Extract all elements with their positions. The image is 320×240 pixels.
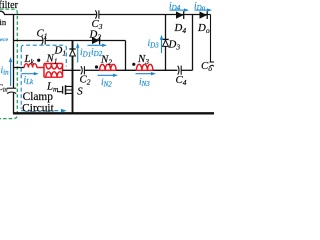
current arrow i_Lk bbox=[22, 72, 39, 75]
svg-text:iin: iin bbox=[1, 66, 10, 77]
capacitor C4 bbox=[178, 66, 182, 75]
svg-text:iDo: iDo bbox=[194, 2, 206, 13]
svg-text:C4: C4 bbox=[176, 74, 187, 87]
svg-text:S: S bbox=[77, 86, 83, 98]
svg-text:N3: N3 bbox=[137, 53, 149, 66]
svg-text:C1: C1 bbox=[37, 28, 48, 41]
label Cin (partial) bbox=[0, 83, 8, 94]
label D4 bbox=[174, 22, 187, 35]
input label vin (partial) bbox=[0, 17, 7, 27]
current arrow i_N3 bbox=[136, 72, 157, 75]
svg-text:iN2: iN2 bbox=[101, 78, 112, 89]
transformer primary N1 / Lm block (red) bbox=[44, 64, 63, 78]
wire: secondary chain bbox=[73, 69, 193, 71]
node dot N2 polarity bbox=[95, 65, 98, 68]
wire: D2 branch to secondary bbox=[73, 41, 126, 71]
label i_N2 bbox=[101, 78, 112, 89]
svg-text:iD4: iD4 bbox=[169, 2, 181, 13]
svg-text:C2: C2 bbox=[80, 74, 91, 87]
wire: top rail bbox=[4, 14, 211, 16]
svg-text:iD3: iD3 bbox=[148, 39, 160, 50]
svg-text:iN3: iN3 bbox=[139, 78, 150, 89]
label i_Do bbox=[194, 2, 206, 13]
svg-text:iD1: iD1 bbox=[80, 48, 91, 59]
wire: bottom rail bbox=[13, 112, 214, 114]
capacitor Cin bbox=[7, 88, 16, 93]
label D3 bbox=[168, 39, 181, 52]
label N1 bbox=[46, 53, 58, 66]
current arrow i_D1 bbox=[76, 43, 79, 63]
label Lk bbox=[24, 53, 35, 66]
diode Do bbox=[200, 11, 208, 19]
node dot N3 polarity bbox=[132, 63, 135, 66]
capacitor C2 bbox=[81, 66, 85, 74]
wire: left input rail bbox=[13, 15, 15, 114]
diode D3 bbox=[162, 39, 168, 46]
svg-text:iLk: iLk bbox=[24, 76, 35, 87]
label N3 bbox=[137, 53, 149, 66]
label D1 bbox=[54, 45, 67, 58]
svg-text:Circuit: Circuit bbox=[22, 103, 54, 115]
current arrow i_D4 bbox=[170, 8, 190, 11]
svg-text:filter: filter bbox=[0, 0, 19, 11]
label i_N3 bbox=[139, 78, 150, 89]
EMI filter label bbox=[0, 0, 19, 11]
svg-text:wce: wce bbox=[0, 37, 9, 43]
label C3 bbox=[92, 18, 103, 31]
label Do bbox=[197, 22, 210, 35]
diode D4 bbox=[176, 11, 184, 19]
svg-text:Lk: Lk bbox=[24, 53, 35, 66]
label C4 bbox=[176, 74, 187, 87]
node label vce (partial blue) bbox=[0, 37, 9, 43]
current arrow i_in bbox=[9, 57, 12, 86]
wire: C4 to D4/Do node bbox=[192, 15, 194, 71]
winding N3 (red) bbox=[136, 64, 153, 70]
svg-text:Do: Do bbox=[197, 22, 210, 35]
capacitor C1 bbox=[42, 36, 46, 44]
clamp circuit callout arrow (blue dashed) bbox=[21, 109, 66, 113]
current arrow i_D3 bbox=[160, 35, 163, 53]
MOSFET switch S bbox=[57, 85, 73, 95]
svg-text:in: in bbox=[0, 17, 7, 27]
label i_in (partial) bbox=[1, 66, 10, 77]
node dot N1 polarity bbox=[37, 59, 40, 62]
inductor Lk (leakage) bbox=[24, 64, 44, 68]
wire: D3 branch bbox=[165, 15, 167, 71]
label C2 bbox=[80, 74, 91, 87]
label i_D4 bbox=[169, 2, 181, 13]
EMI filter box (green dashed) bbox=[0, 9, 17, 118]
clamp circuit box (blue dashed) bbox=[21, 45, 66, 109]
current arrow i_N2 bbox=[98, 74, 119, 77]
label S bbox=[77, 86, 83, 98]
winding N2 (red) bbox=[99, 64, 116, 70]
input source stub (cut off at left edge) bbox=[0, 11, 5, 14]
wire: switch node vertical (D1/S) bbox=[72, 41, 74, 115]
wire: clamp C1 branch bbox=[14, 40, 73, 42]
current arrow i_Do bbox=[195, 8, 213, 11]
wire: primary loop bbox=[14, 67, 25, 69]
svg-text:N2: N2 bbox=[100, 54, 112, 67]
label D2 bbox=[89, 29, 102, 42]
label C1 bbox=[37, 28, 48, 41]
label i_D2 bbox=[91, 48, 103, 59]
label i_D1 bbox=[80, 48, 91, 59]
svg-text:D3: D3 bbox=[168, 39, 181, 52]
capacitor C3 bbox=[95, 10, 99, 18]
wire: output rail bbox=[210, 15, 212, 62]
label i_D3 bbox=[148, 39, 160, 50]
label N2 bbox=[100, 54, 112, 67]
label Clamp Circuit bbox=[22, 91, 54, 115]
svg-text:Clamp: Clamp bbox=[23, 91, 54, 103]
label Lm bbox=[46, 81, 59, 94]
label Co bbox=[201, 60, 212, 73]
svg-text:Cin: Cin bbox=[0, 83, 8, 94]
capacitor Co bbox=[210, 62, 215, 67]
wire: primary block to switch node bbox=[63, 69, 73, 71]
current arrow i_D2 bbox=[88, 44, 108, 47]
svg-text:D4: D4 bbox=[174, 22, 187, 35]
label i_Lk bbox=[24, 76, 35, 87]
diode D1 bbox=[69, 49, 75, 56]
diode D2 bbox=[92, 37, 100, 45]
